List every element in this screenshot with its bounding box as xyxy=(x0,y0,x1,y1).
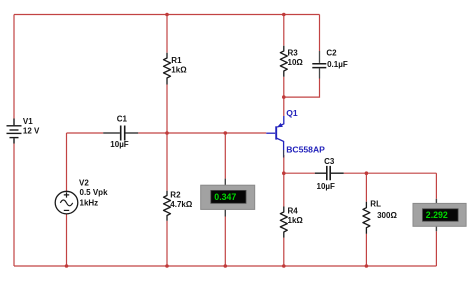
wire Q1 collector down xyxy=(283,155,285,173)
wire RL top xyxy=(365,173,367,202)
wire V2 branch top xyxy=(66,133,68,191)
svg-text:R3: R3 xyxy=(288,48,299,57)
wire R1 bottom xyxy=(166,85,168,134)
wire R3 top xyxy=(283,15,285,46)
wire probe2 to bottom rail xyxy=(435,231,437,266)
wire R2 bottom xyxy=(166,221,168,266)
wire collector to R4 xyxy=(283,173,285,206)
svg-text:BC558AP: BC558AP xyxy=(286,145,325,155)
wire probe1 branch bottom xyxy=(224,217,226,267)
resistor R3 xyxy=(280,46,287,77)
svg-text:12 V: 12 V xyxy=(23,127,40,136)
probe2 stub bottom xyxy=(435,226,437,231)
capacitor C1 xyxy=(103,126,138,141)
wire V2 branch bottom xyxy=(66,214,68,266)
svg-text:C2: C2 xyxy=(326,49,337,58)
wire left rail lower (V1 bottom lead) xyxy=(13,144,15,267)
wire RL bottom xyxy=(365,234,367,266)
junction R3 top rail xyxy=(282,13,286,17)
junction RL tap xyxy=(365,171,369,175)
svg-text:Q1: Q1 xyxy=(286,108,298,118)
capacitor C2 xyxy=(312,51,326,79)
svg-text:0.347: 0.347 xyxy=(214,192,236,202)
junction R1 top rail xyxy=(165,13,169,17)
capacitor C3 xyxy=(315,166,344,180)
wire R2 top xyxy=(166,133,168,191)
probe2 stub top xyxy=(435,199,437,204)
wire bottom rail xyxy=(14,265,436,267)
svg-text:1kHz: 1kHz xyxy=(80,198,99,207)
wire collector to C3 xyxy=(284,172,315,174)
wire top rail xyxy=(14,14,320,16)
wire C2 top xyxy=(319,15,321,52)
svg-text:0.5 Vpk: 0.5 Vpk xyxy=(80,188,109,197)
wire left rail upper (V1 top lead) xyxy=(13,15,15,119)
junction probe1 base node xyxy=(224,131,228,135)
transistor Q1 xyxy=(266,116,284,158)
junction R1 base node xyxy=(165,131,169,135)
svg-text:R4: R4 xyxy=(288,206,299,215)
wire C3 to right rail xyxy=(344,172,437,174)
resistor R4 xyxy=(280,207,287,238)
ac source V2 xyxy=(55,191,78,214)
probe1 stub bottom xyxy=(224,209,226,216)
probe1 measurement box xyxy=(201,185,255,209)
svg-text:V1: V1 xyxy=(23,117,33,126)
junction R2 ground xyxy=(165,264,169,268)
svg-text:4.7kΩ: 4.7kΩ xyxy=(170,200,193,209)
wire C2 bottom with corner xyxy=(284,79,320,98)
svg-text:1kΩ: 1kΩ xyxy=(171,66,187,75)
svg-text:1kΩ: 1kΩ xyxy=(288,216,304,225)
svg-text:0.1µF: 0.1µF xyxy=(327,60,348,69)
battery V1 xyxy=(7,119,22,144)
svg-text:10µF: 10µF xyxy=(317,182,336,191)
svg-text:R1: R1 xyxy=(171,56,182,65)
wire R4 bottom xyxy=(283,238,285,266)
resistor R2 xyxy=(164,191,171,221)
svg-text:300Ω: 300Ω xyxy=(377,211,397,220)
resistor R1 xyxy=(164,53,171,85)
wire R3 bottom xyxy=(283,77,285,97)
junction RL ground xyxy=(365,264,369,268)
junction V2 ground xyxy=(65,264,69,268)
probe2 measurement box xyxy=(413,203,466,226)
svg-text:RL: RL xyxy=(370,199,381,208)
junction probe1 ground xyxy=(224,264,228,268)
wire base node C1 to Q1 base xyxy=(138,132,266,134)
junction collector C3 R4 xyxy=(282,171,286,175)
wire R1 top xyxy=(166,15,168,53)
svg-text:C3: C3 xyxy=(324,157,335,166)
resistor RL xyxy=(363,202,370,234)
junction R4 ground xyxy=(282,264,286,268)
wire right rail to probe2 xyxy=(435,173,437,199)
wire probe1 branch top xyxy=(224,133,226,179)
svg-text:C1: C1 xyxy=(117,114,128,123)
probe1 stub top xyxy=(224,179,226,186)
svg-text:R2: R2 xyxy=(170,190,181,199)
wire Q1 emitter xyxy=(283,97,285,116)
svg-text:2.292: 2.292 xyxy=(426,210,448,220)
svg-text:10Ω: 10Ω xyxy=(288,58,304,67)
svg-text:10µF: 10µF xyxy=(110,140,129,149)
wire base node left of C1 xyxy=(67,132,104,134)
svg-text:V2: V2 xyxy=(79,178,89,187)
junction emitter R3 C2 xyxy=(282,95,286,99)
